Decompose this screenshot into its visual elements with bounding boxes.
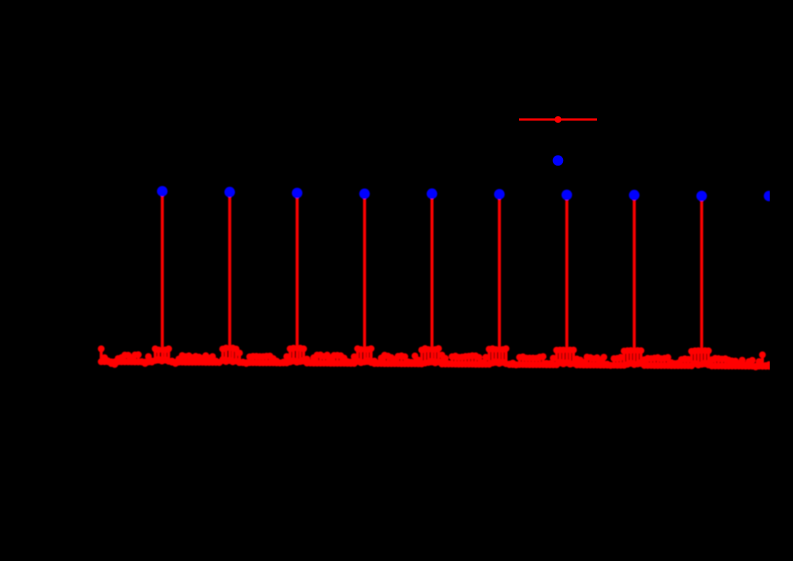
peak marker P10 [764, 191, 775, 202]
signal baseline [101, 362, 770, 367]
peak marker P5 [427, 188, 438, 199]
peak marker P2 [224, 187, 235, 198]
peak marker P1 [157, 186, 168, 197]
signal stems [101, 191, 769, 367]
signal sample markers [98, 188, 773, 370]
peak marker P7 [562, 190, 573, 201]
peak marker P9 [696, 191, 707, 202]
peak marker P3 [292, 188, 303, 199]
legend line sample [519, 118, 597, 120]
peak marker P4 [359, 189, 370, 200]
peak marker P6 [494, 189, 505, 200]
legend line marker [555, 116, 562, 123]
peak marker P8 [629, 190, 640, 201]
legend peak marker [553, 155, 564, 166]
